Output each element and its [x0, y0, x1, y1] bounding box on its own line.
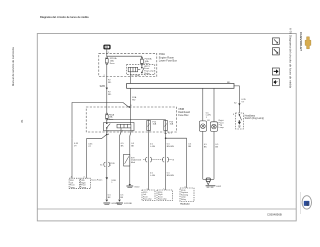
branch to radiator connector: [165, 133, 167, 135]
wire labels below inline connector: [150, 173, 174, 178]
wire labels above inline connector: [150, 144, 192, 149]
relay contact left: [107, 124, 110, 128]
relay coil right: [117, 124, 131, 128]
svg-text:L-GN: L-GN: [150, 175, 155, 177]
svg-text:4: 4: [71, 177, 72, 179]
svg-text:1: 1: [111, 182, 113, 184]
wire icon to fuse box: [106, 49, 108, 56]
svg-text:Switch (Fog Lamp): Switch (Fog Lamp): [245, 117, 265, 120]
wire right lamp to ground: [213, 131, 215, 179]
right lamp label: [219, 119, 225, 129]
svg-text:BK: BK: [215, 146, 218, 148]
svg-text:RD: RD: [227, 82, 231, 84]
wire supply bus in fuse box: [107, 55, 142, 57]
svg-text:2: 2: [132, 130, 133, 132]
wire relay KR73 output to bus: [129, 72, 131, 84]
bottom connector radiator: [180, 188, 194, 202]
boxed fuse F4: [147, 120, 151, 130]
pin labels on dashboard box bottom: [108, 130, 168, 136]
relay contact: [141, 65, 143, 68]
svg-text:CHEVROLET: CHEVROLET: [299, 32, 303, 51]
bottom wire labels: [108, 194, 124, 199]
inline component on x129.8: [124, 154, 130, 166]
left front fog lamp: [199, 121, 206, 131]
bottom connector for right fog lamp wire: [157, 190, 173, 201]
svg-text:BN-WH: BN-WH: [167, 146, 175, 148]
svg-text:2: 2: [184, 186, 185, 188]
svg-text:5: 5: [108, 52, 110, 54]
svg-text:X1: X1: [100, 165, 103, 167]
fuse F1UA: [106, 57, 108, 59]
dashboard relay box: [104, 123, 134, 131]
svg-text:RD: RD: [108, 82, 112, 84]
svg-text:X113: X113: [136, 160, 142, 162]
content area outer border: [37, 34, 296, 221]
fuse F2UA: [141, 57, 143, 59]
svg-text:VT: VT: [241, 102, 244, 104]
splice arrow on switch wire: [238, 103, 240, 105]
bottom connector for left fog lamp wire: [142, 190, 155, 201]
wire splitting to lower-left connector: [106, 132, 108, 134]
footer rule: [37, 208, 296, 210]
svg-text:X50A: X50A: [135, 74, 140, 77]
svg-text:X2 2: X2 2: [168, 132, 172, 134]
inline connector X113: [143, 159, 146, 161]
wire left lamp to ground: [202, 131, 204, 179]
relay label: [144, 66, 154, 75]
wire feed into dashboard fuse box: [72, 103, 129, 139]
svg-text:81: 81: [20, 119, 24, 122]
headlamp switch dashed box: [236, 113, 244, 129]
svg-text:C0504856B: C0504856B: [267, 212, 282, 216]
bottom ground for wire 119.5: [118, 200, 121, 202]
svg-text:BK: BK: [131, 145, 134, 147]
svg-text:3: 3: [149, 130, 150, 132]
svg-text:S2: S2: [234, 102, 237, 104]
fuse F6DA inside dashboard box: [106, 113, 108, 115]
svg-text:Fog Lamp: Fog Lamp: [143, 199, 152, 201]
svg-text:BK: BK: [108, 197, 111, 199]
wire relay pin 4 to ground G111: [119, 136, 121, 199]
wire fuse F12 to left fog lamp connector: [148, 131, 150, 191]
svg-text:1: 1: [163, 188, 164, 190]
svg-text:E8: E8: [207, 120, 209, 122]
svg-text:RD: RD: [108, 94, 112, 96]
label X50A Engine Room Lower Fuse Box: [159, 53, 178, 62]
svg-text:G102: G102: [216, 186, 222, 188]
splice triangle on wire 106: [106, 177, 109, 179]
nav box zoom-in: [273, 48, 280, 55]
wire bus to left fog lamp: [202, 88, 204, 121]
svg-text:Lamp: Lamp: [81, 187, 86, 189]
GM logo blue square: [304, 201, 310, 206]
nav box arrow-right: [272, 68, 279, 75]
pin labels on fusebox bottom: [104, 74, 146, 77]
lamp ground assembly: [203, 178, 214, 180]
svg-text:1: 1: [206, 117, 208, 119]
svg-text:L-GN: L-GN: [150, 146, 155, 148]
svg-text:GM: GM: [306, 202, 310, 206]
svg-text:4: 4: [83, 177, 84, 179]
boxed fuse F5: [164, 120, 168, 130]
wire to connector X84: [71, 139, 73, 179]
faint right-edge rotated text line: [299, 192, 301, 214]
wire branch to connector X126: [166, 138, 187, 188]
svg-text:8: 8: [233, 114, 234, 116]
svg-text:BN: BN: [188, 146, 191, 148]
wire label F2 RD: [108, 80, 112, 85]
dashboard fuse box X50B dashed outline: [86, 107, 176, 132]
relay coil: [128, 67, 138, 72]
svg-text:9: 9: [131, 105, 132, 107]
svg-text:Diagrama del circuito de luces: Diagrama del circuito de luces de niebla: [40, 15, 89, 19]
svg-text:BN-WH: BN-WH: [167, 175, 175, 177]
svg-text:6: 6: [108, 130, 109, 132]
bottom ground for wire 106: [106, 200, 109, 202]
svg-text:VT: VT: [74, 145, 77, 147]
svg-text:BK: BK: [204, 146, 207, 148]
svg-text:Manual de servicio de carrocer: Manual de servicio de carroceria: [11, 47, 15, 86]
inline connector marks on wire 106: [104, 162, 106, 166]
svg-text:BK: BK: [120, 197, 123, 199]
svg-text:Headlamp: Headlamp: [245, 115, 256, 117]
svg-text:Fuse: Fuse: [110, 63, 116, 65]
nav box arrow-left: [272, 79, 279, 86]
wire fuse F13 to right fog lamp connector: [165, 131, 167, 191]
svg-text:Fuse: Fuse: [109, 119, 114, 121]
left lamp wire label: [206, 112, 211, 119]
svg-text:G110: G110: [134, 187, 140, 189]
GM logo ring: [302, 196, 311, 209]
wire bus to headlamp switch: [234, 86, 239, 113]
right front fog lamp: [210, 122, 217, 132]
wire fuse F21UA to dashboard box: [106, 65, 108, 107]
wire relay pin 2 through diode module to ground: [129, 136, 131, 184]
svg-text:Radiador: Radiador: [180, 204, 190, 206]
svg-text:2: 2: [104, 75, 105, 77]
bottom-left connector B: [80, 178, 90, 189]
svg-text:B: B: [173, 160, 175, 162]
wire relay pin A to ground G110: [106, 134, 108, 199]
svg-text:BK: BK: [121, 145, 124, 147]
label X50B Dashboard Fuse Box: [178, 108, 190, 117]
svg-text:VT: VT: [88, 146, 91, 148]
svg-text:Fog Lamp: Fog Lamp: [158, 199, 167, 201]
Chevrolet gold bowtie (rotated): [305, 37, 311, 49]
svg-text:1: 1: [110, 165, 112, 167]
svg-text:Fuse Box: Fuse Box: [178, 114, 189, 117]
svg-text:87: 87: [131, 75, 133, 77]
left wire labels: [74, 143, 93, 148]
svg-text:Lamp: Lamp: [219, 127, 225, 129]
power feed icon 31: [103, 45, 110, 50]
svg-text:hacia Faros: hacia Faros: [91, 179, 102, 182]
svg-text:6-78 Diagrama del circuito de: 6-78 Diagrama del circuito de luces de n…: [288, 28, 292, 88]
bus bar: [127, 84, 234, 89]
svg-text:15A: 15A: [170, 123, 174, 126]
svg-text:G111 BK: G111 BK: [124, 203, 133, 205]
nav box zoom-out: [273, 38, 280, 45]
bottom-left connector A: [69, 178, 79, 189]
svg-text:4: 4: [122, 130, 123, 132]
svg-text:Lamp: Lamp: [70, 187, 75, 189]
svg-text:1: 1: [147, 188, 148, 190]
wire bus to right fog lamp: [213, 88, 215, 122]
relay pin wire to ground (x119.5): [120, 132, 122, 136]
svg-text:15A: 15A: [153, 123, 157, 126]
mid ground for x129.8: [129, 184, 131, 186]
svg-text:Relay: Relay: [181, 199, 186, 201]
svg-text:Lower Fuse Box: Lower Fuse Box: [159, 60, 178, 63]
svg-text:A: A: [108, 133, 110, 136]
svg-text:S205: S205: [100, 86, 106, 88]
internal feed line to fuses: [106, 120, 108, 122]
svg-text:Mod: Mod: [131, 162, 136, 164]
wire bus to dashboard fuse box pin 9: [129, 88, 131, 107]
fuse box X50A dashed outline: [99, 53, 157, 76]
svg-text:RD: RD: [132, 99, 136, 101]
svg-text:1: 1: [145, 75, 146, 77]
relay KR73 dashed box: [127, 65, 155, 75]
relay pin wire through resistor to ground (x129.8): [130, 132, 131, 136]
headlamp switch label: [245, 115, 265, 120]
